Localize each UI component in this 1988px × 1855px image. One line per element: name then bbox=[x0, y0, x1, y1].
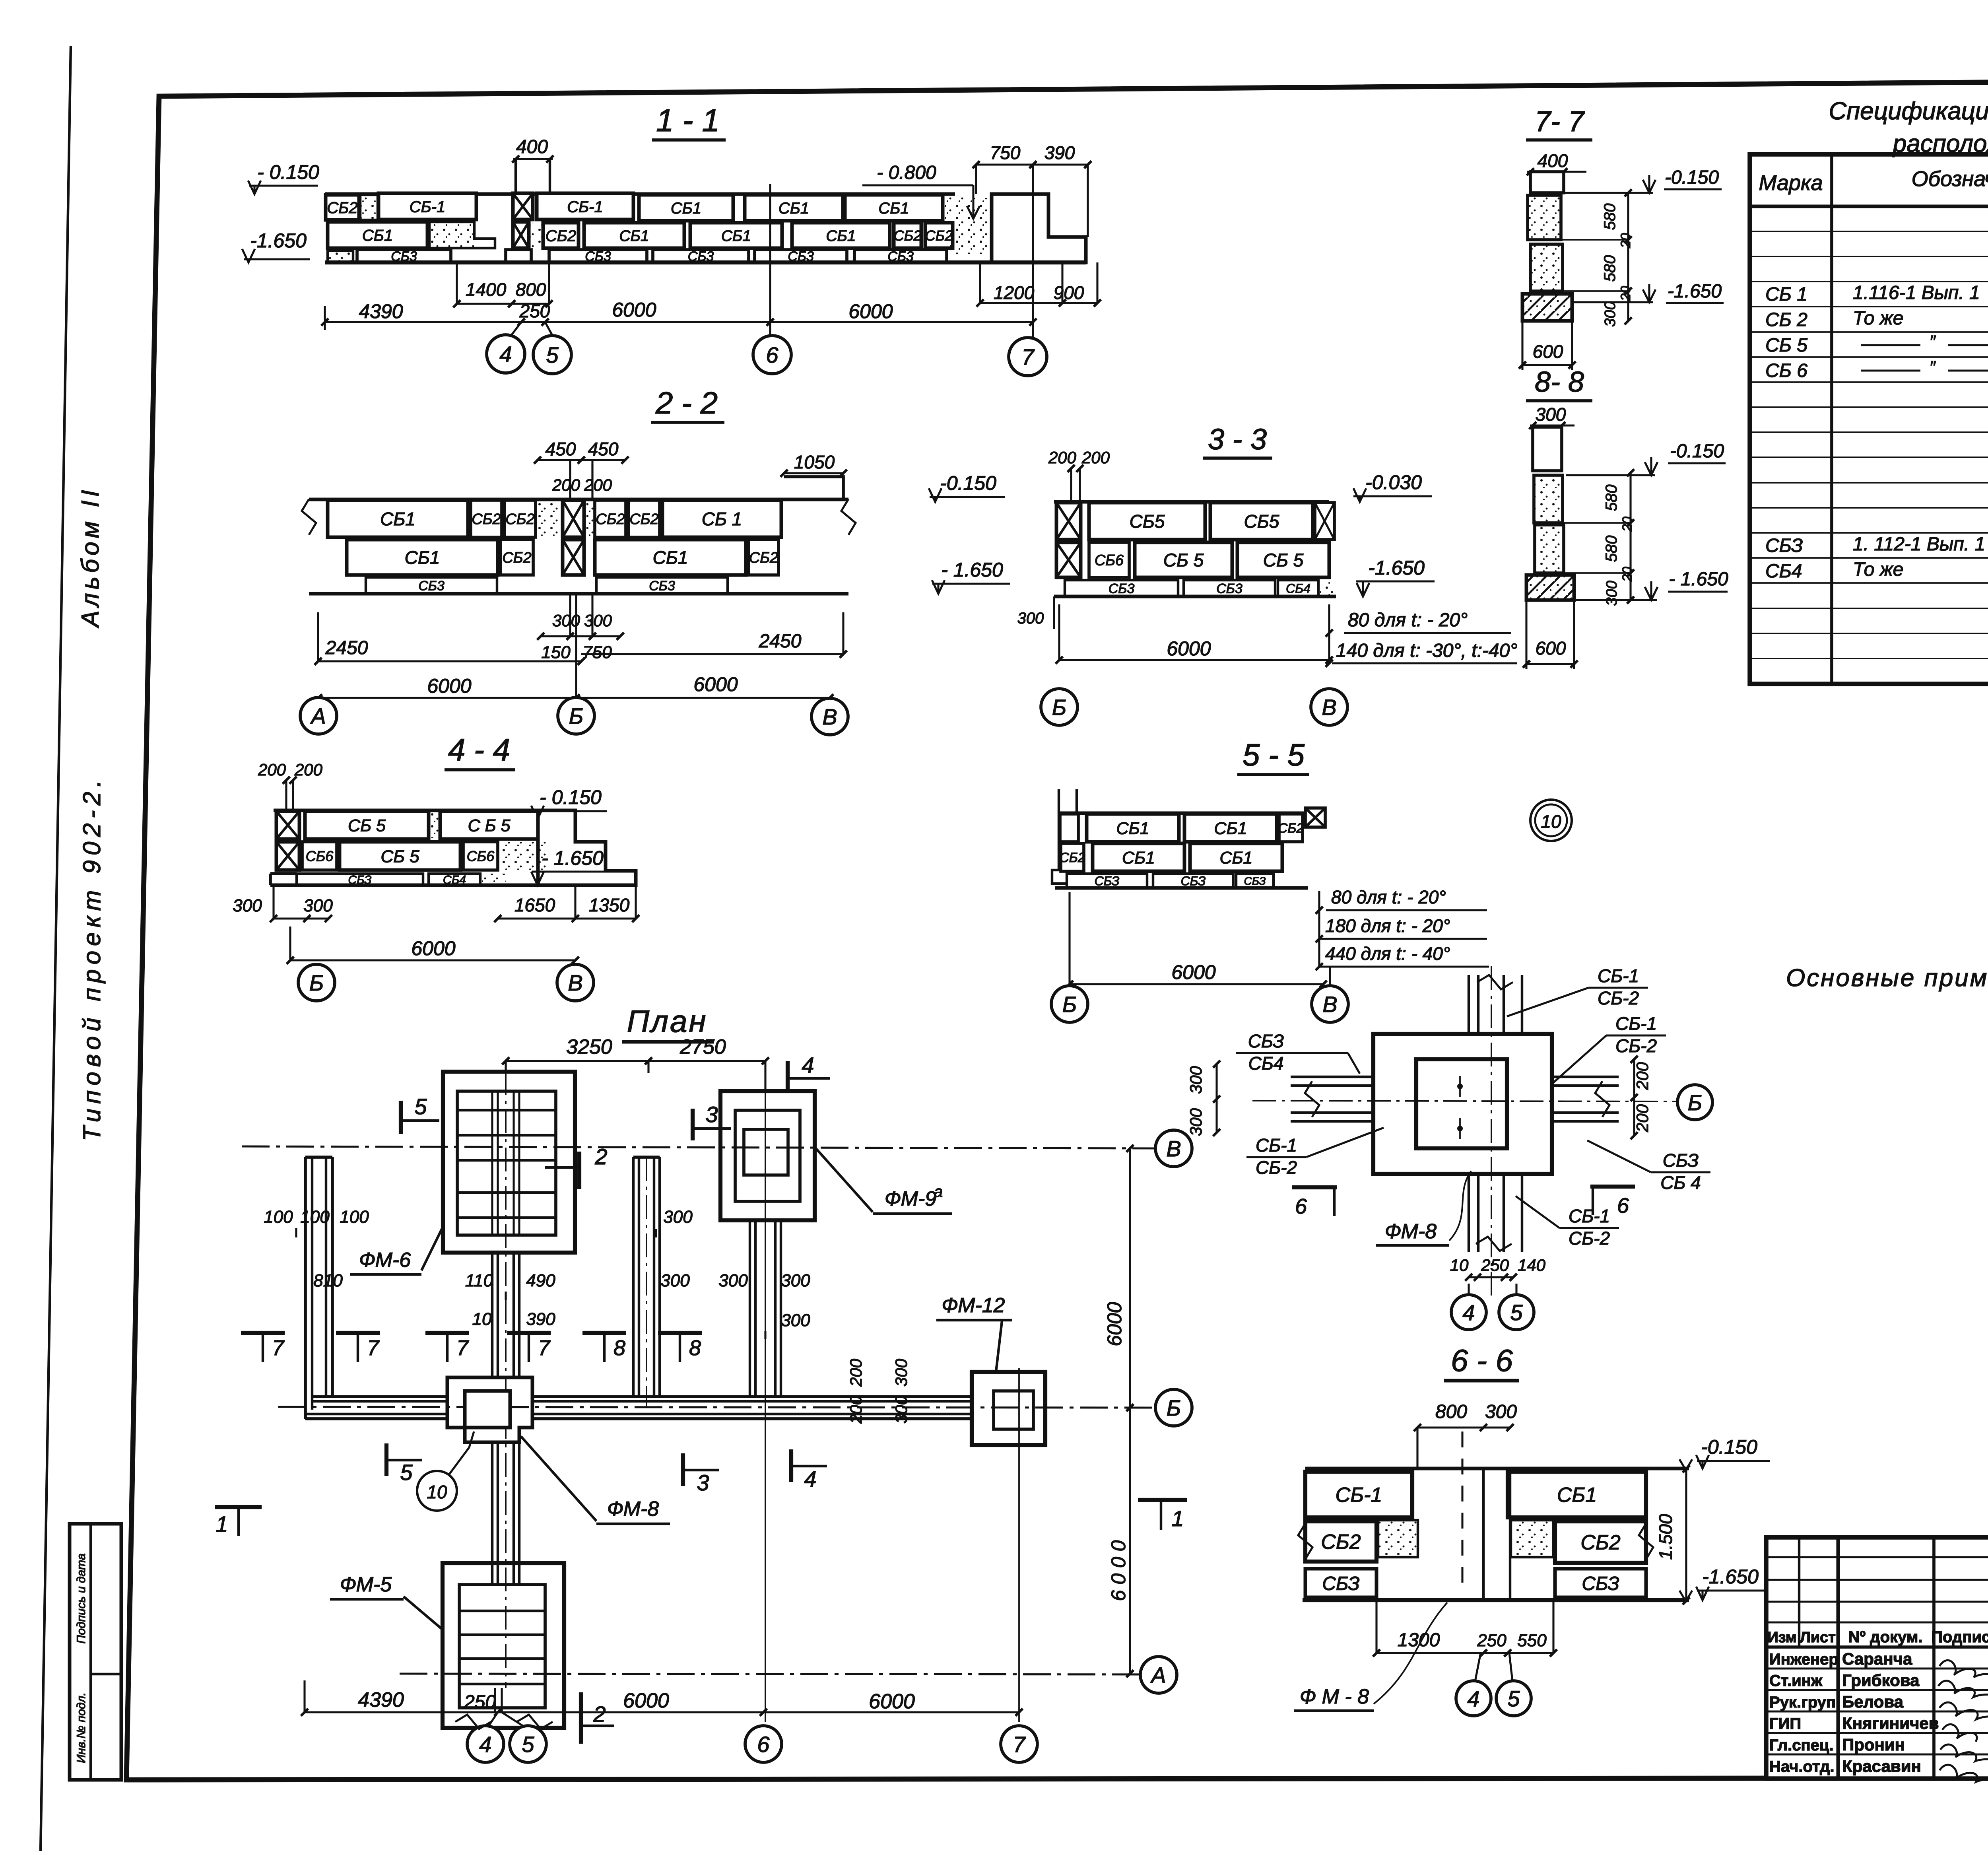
svg-text:- 0.150: - 0.150 bbox=[257, 161, 319, 183]
section 3-3 row3 plate SB4 bbox=[1278, 580, 1318, 596]
section 2-2 row1 block SB1 b bbox=[662, 500, 781, 537]
svg-text:6 - 6: 6 - 6 bbox=[1451, 1343, 1513, 1378]
svg-text:200: 200 bbox=[846, 1395, 865, 1424]
svg-text:450: 450 bbox=[588, 439, 619, 459]
svg-text:6: 6 bbox=[1295, 1195, 1307, 1218]
section 1-1 row1 block SB2 bbox=[326, 195, 359, 220]
svg-text:СБ4: СБ4 bbox=[1765, 561, 1802, 582]
svg-text:1: 1 bbox=[215, 1511, 228, 1536]
section 1-1 row3 plate SB3 a bbox=[357, 250, 451, 262]
svg-text:300: 300 bbox=[1536, 404, 1566, 425]
plan footing FM-6 outer bbox=[443, 1072, 575, 1253]
svg-text:300: 300 bbox=[1186, 1066, 1205, 1094]
svg-text:6000: 6000 bbox=[848, 300, 893, 322]
section 2-2 row3 plate SB3 b bbox=[596, 577, 728, 594]
plan wall strip under FM-9a bbox=[749, 1220, 751, 1397]
svg-text:6000: 6000 bbox=[869, 1690, 915, 1713]
svg-text:1050: 1050 bbox=[794, 452, 835, 472]
svg-text:4390: 4390 bbox=[358, 1688, 404, 1711]
section 4-4 base pad line bbox=[270, 884, 538, 887]
section 8-8 level -0.150 bbox=[1566, 474, 1655, 476]
svg-text:5: 5 bbox=[522, 1732, 534, 1757]
svg-text:1.500: 1.500 bbox=[1655, 1514, 1676, 1560]
plan left wall strip bbox=[304, 1157, 307, 1419]
section 2-2 main dimension line bbox=[318, 697, 830, 699]
section 3-3 row2 block SB5 b bbox=[1237, 542, 1329, 577]
node detail horizontal wall strip right bbox=[1552, 1076, 1619, 1078]
svg-text:СБЗ: СБЗ bbox=[1181, 874, 1206, 888]
section 2-2 column X lower bbox=[563, 540, 584, 575]
svg-text:150: 150 bbox=[541, 643, 571, 662]
svg-text:Инв.№ подл.: Инв.№ подл. bbox=[75, 1692, 88, 1763]
svg-text:СБ1: СБ1 bbox=[1214, 819, 1247, 838]
svg-text:СБЗ: СБЗ bbox=[1663, 1150, 1699, 1171]
section 1-1 wall top line bbox=[325, 192, 955, 196]
svg-text:СБ-2: СБ-2 bbox=[1569, 1228, 1610, 1249]
svg-text:СБ 5: СБ 5 bbox=[1765, 335, 1807, 356]
section 1-1 grid 6 axis line bbox=[769, 184, 771, 335]
svg-text:Марка: Марка bbox=[1759, 171, 1823, 195]
svg-text:1650: 1650 bbox=[514, 895, 555, 915]
svg-text:СБЗ: СБЗ bbox=[1322, 1573, 1359, 1594]
svg-text:80 для t: - 20°: 80 для t: - 20° bbox=[1348, 610, 1468, 631]
svg-text:Рук.груп: Рук.груп bbox=[1769, 1694, 1836, 1711]
plan node cross inner block bbox=[465, 1391, 510, 1428]
section 6-6 axis circle 5 bbox=[1496, 1681, 1531, 1716]
plan footing FM-12 inner bbox=[994, 1391, 1033, 1429]
plan section marker 4 top bbox=[786, 1061, 790, 1090]
svg-text:СБ1: СБ1 bbox=[826, 227, 856, 245]
plan footing FM-5 rungs bbox=[459, 1610, 545, 1612]
title block signatures bbox=[1939, 1660, 1988, 1677]
section 1-1 row1 block SB1 c bbox=[639, 195, 733, 221]
svg-text:Б: Б bbox=[569, 703, 583, 728]
svg-text:ФМ-5: ФМ-5 bbox=[340, 1573, 392, 1596]
svg-text:Спецификация элементов к ма: Спецификация элементов к маркировочной с… bbox=[1829, 97, 1988, 125]
plan central column axis dash line bbox=[505, 1071, 507, 1688]
plan footing FM-5 inner bbox=[459, 1585, 545, 1708]
svg-text:Типовой проект 902-2.: Типовой проект 902-2. bbox=[78, 775, 106, 1141]
section 7-7 level -0.150 bbox=[1564, 192, 1653, 194]
svg-text:2750: 2750 bbox=[679, 1035, 726, 1059]
plan right vertical dimension line bbox=[1129, 1148, 1131, 1674]
section 1-1 grid 7 axis line bbox=[1032, 167, 1034, 337]
section 6-6 block SB2 right bbox=[1555, 1521, 1646, 1563]
svg-text:20: 20 bbox=[1620, 567, 1635, 582]
svg-text:250: 250 bbox=[464, 1692, 496, 1713]
plan footing FM-9a inner bbox=[744, 1129, 788, 1175]
svg-text:Красавин: Красавин bbox=[1842, 1757, 1921, 1775]
svg-text:-1.650: -1.650 bbox=[250, 229, 307, 252]
svg-text:Nº докум.: Nº докум. bbox=[1848, 1628, 1923, 1646]
svg-text:200: 200 bbox=[1633, 1062, 1652, 1090]
plan central column strip lower bbox=[491, 1442, 493, 1585]
svg-text:450: 450 bbox=[546, 439, 576, 459]
svg-text:СБ5: СБ5 bbox=[1130, 511, 1165, 532]
plan section marker 3 bottom bbox=[681, 1453, 685, 1486]
svg-text:Саранча: Саранча bbox=[1842, 1649, 1912, 1668]
section 8-8 top block bbox=[1533, 427, 1562, 471]
svg-text:СБ5: СБ5 bbox=[1244, 511, 1279, 532]
title block outer frame bbox=[1766, 1537, 1988, 1779]
svg-text:СБ 5: СБ 5 bbox=[1163, 550, 1204, 571]
section 3-3 axis circle B bbox=[1041, 689, 1077, 725]
svg-text:-0.150: -0.150 bbox=[1701, 1436, 1757, 1458]
section 4-4 row1 dots bbox=[429, 811, 439, 838]
section 2-2 wall top line bbox=[309, 498, 848, 501]
svg-text:СБ 5: СБ 5 bbox=[1263, 550, 1304, 571]
section 5-5 wall top line bbox=[1058, 812, 1308, 815]
svg-text:10: 10 bbox=[1450, 1256, 1469, 1274]
svg-text:6000: 6000 bbox=[1171, 961, 1215, 983]
svg-text:200: 200 bbox=[1633, 1104, 1652, 1132]
section 2-2 break mark left bbox=[302, 499, 316, 535]
svg-text:300: 300 bbox=[1186, 1108, 1205, 1136]
svg-text:300: 300 bbox=[1485, 1401, 1517, 1422]
svg-text:5: 5 bbox=[1507, 1686, 1520, 1711]
section 4-4 row2 block SB6 a bbox=[302, 842, 337, 870]
svg-text:300: 300 bbox=[303, 896, 333, 915]
svg-text:600: 600 bbox=[1536, 638, 1566, 658]
node detail horizontal wall strip left bbox=[1291, 1076, 1373, 1078]
svg-text:СБ6: СБ6 bbox=[1095, 552, 1124, 569]
plan grid 6 axis dash line bbox=[765, 1093, 766, 1722]
svg-text:Ст.инж: Ст.инж bbox=[1769, 1672, 1823, 1690]
specification table frame bbox=[1750, 154, 1988, 684]
svg-text:6000: 6000 bbox=[411, 937, 455, 960]
svg-text:7: 7 bbox=[1021, 344, 1035, 369]
section 6-6 dotted concrete right bbox=[1511, 1520, 1553, 1557]
svg-text:6000: 6000 bbox=[693, 673, 738, 695]
svg-text:6: 6 bbox=[757, 1732, 770, 1757]
svg-text:СБ1: СБ1 bbox=[1557, 1484, 1597, 1507]
section 5-5 row2 block SB2 bbox=[1061, 843, 1084, 871]
plan section marker 4 bottom bbox=[789, 1449, 793, 1482]
svg-text:СБ-1: СБ-1 bbox=[1336, 1484, 1382, 1507]
section 4-4 row2 block SB5 bbox=[340, 842, 460, 870]
section 5-5 row3 plate SB3 c bbox=[1236, 874, 1274, 888]
svg-text:СБ1: СБ1 bbox=[878, 200, 909, 217]
title block name rows lines bbox=[1766, 1667, 1988, 1669]
plan section marker 2 top bbox=[577, 1152, 581, 1189]
plan footing FM-9a outer bbox=[720, 1091, 815, 1220]
section 2-2 base line bbox=[309, 592, 848, 596]
svg-text:СБ2: СБ2 bbox=[327, 199, 357, 217]
plan strip along axis B right part bbox=[532, 1395, 972, 1398]
svg-text:СБ2: СБ2 bbox=[1321, 1531, 1361, 1554]
svg-text:В: В bbox=[1322, 992, 1337, 1017]
svg-text:180 для t: - 20°: 180 для t: - 20° bbox=[1325, 915, 1450, 936]
svg-text:Подпись: Подпись bbox=[1931, 1628, 1988, 1646]
section 7-7 wall block 1 bbox=[1528, 195, 1561, 240]
section 1-1 row2 block SB1 c bbox=[690, 223, 782, 248]
svg-text:″: ″ bbox=[1929, 332, 1936, 352]
svg-text:3 - 3: 3 - 3 bbox=[1208, 423, 1267, 456]
svg-text:8- 8: 8- 8 bbox=[1535, 366, 1584, 398]
svg-text:Лист: Лист bbox=[1800, 1629, 1836, 1646]
section 1-1 row1 dots right bbox=[945, 195, 964, 220]
plan axis circle 6 bottom bbox=[745, 1726, 782, 1762]
svg-text:1200: 1200 bbox=[994, 282, 1035, 303]
svg-text:600: 600 bbox=[1533, 341, 1563, 362]
svg-text:580: 580 bbox=[1603, 485, 1620, 511]
section 3-3 row2 block SB5 a bbox=[1135, 542, 1232, 577]
svg-text:Пронин: Пронин bbox=[1842, 1735, 1905, 1754]
section 2-2 row2 block SB2 bbox=[501, 540, 533, 575]
svg-text:3: 3 bbox=[705, 1102, 718, 1127]
section 4-4 row2 dots bbox=[499, 842, 547, 870]
plan axis circle 7 bottom bbox=[1001, 1726, 1037, 1762]
svg-text:100: 100 bbox=[340, 1207, 369, 1227]
section 5-5 base line bbox=[1055, 886, 1308, 890]
svg-text:1: 1 bbox=[1171, 1506, 1184, 1531]
svg-text:- 0.800: - 0.800 bbox=[877, 162, 936, 183]
svg-text:СБ1: СБ1 bbox=[1116, 819, 1149, 838]
plan section markers 7 row bbox=[241, 1331, 285, 1335]
specification table header row line bbox=[1750, 205, 1988, 208]
svg-text:СБ 4: СБ 4 bbox=[1660, 1172, 1701, 1193]
section 2-2 row1 block SB2 b bbox=[505, 500, 536, 537]
section 2-2 row1 block SB2 d bbox=[629, 500, 660, 537]
svg-text:СБ2: СБ2 bbox=[505, 511, 534, 528]
section 1-1 main dimension line bbox=[325, 321, 1033, 323]
svg-text:4: 4 bbox=[499, 342, 512, 367]
section 1-1 row2 dotted step bbox=[429, 222, 495, 248]
section 7-7 level -1.650 bbox=[1574, 301, 1653, 303]
svg-text:5: 5 bbox=[1510, 1300, 1523, 1325]
svg-text:В: В bbox=[1166, 1136, 1181, 1161]
sheet binding edge line bbox=[41, 46, 71, 1851]
title block vertical lines left section bbox=[1798, 1537, 1800, 1647]
svg-text:2: 2 bbox=[594, 1144, 607, 1169]
plan grid 7 axis dash line bbox=[1018, 1368, 1020, 1722]
node detail section marker 6 left bbox=[1292, 1185, 1337, 1189]
section 1-1 row2 block SB1 b bbox=[584, 223, 684, 248]
svg-text:300: 300 bbox=[781, 1311, 810, 1330]
svg-text:СБ6: СБ6 bbox=[467, 848, 495, 864]
svg-text:СБЗ: СБЗ bbox=[1582, 1573, 1619, 1594]
node detail vertical wall strip upper bbox=[1468, 975, 1470, 1034]
svg-text:Б: Б bbox=[1052, 695, 1066, 720]
svg-text:СБ1: СБ1 bbox=[671, 200, 701, 217]
section 2-2 row2 block SB1 a bbox=[347, 540, 498, 575]
svg-text:20: 20 bbox=[1620, 517, 1635, 532]
svg-text:СБ3: СБ3 bbox=[1109, 581, 1135, 596]
svg-text:Нач.отд.: Нач.отд. bbox=[1769, 1758, 1834, 1775]
section 6-6 plate SB3 right bbox=[1555, 1569, 1646, 1597]
svg-text:5: 5 bbox=[546, 342, 559, 367]
section 7-7 wall block 2 bbox=[1530, 244, 1563, 291]
section 7-7 base pad bbox=[1522, 294, 1572, 321]
svg-text:4: 4 bbox=[804, 1466, 816, 1491]
svg-text:390: 390 bbox=[526, 1309, 555, 1329]
svg-text:-0.030: -0.030 bbox=[1365, 471, 1422, 493]
svg-text:С Б 5: С Б 5 bbox=[468, 816, 511, 835]
svg-text:2: 2 bbox=[593, 1702, 606, 1727]
svg-text:СБ2: СБ2 bbox=[925, 227, 953, 244]
section 1-1 row3 plate SB3 b bbox=[549, 250, 647, 262]
section 3-3 row1 block SB5 b bbox=[1210, 503, 1313, 540]
svg-text:СБ-1: СБ-1 bbox=[1569, 1206, 1610, 1226]
section 4-4 row3 plate SB3 bbox=[297, 874, 423, 885]
section 1-1 row1 block SB-1 b bbox=[537, 193, 633, 219]
svg-text:6000: 6000 bbox=[427, 675, 471, 697]
svg-text:СБ1: СБ1 bbox=[1220, 848, 1253, 867]
section 1-1 column X block upper bbox=[513, 193, 533, 219]
svg-text:Б: Б bbox=[1062, 992, 1077, 1017]
section 6-6 block SB2 left bbox=[1305, 1521, 1376, 1562]
plan bottom dimension line bbox=[305, 1711, 1019, 1713]
section 1-1 column X block lower bbox=[513, 222, 529, 248]
section 6-6 base line bbox=[1303, 1598, 1689, 1602]
section 6-6 axis circle 4 bbox=[1456, 1681, 1491, 1716]
svg-text:80 для t: - 20°: 80 для t: - 20° bbox=[1331, 887, 1446, 907]
svg-text:5: 5 bbox=[400, 1460, 413, 1485]
section 4-4 main dimension line bbox=[290, 959, 575, 961]
svg-text:800: 800 bbox=[1435, 1401, 1467, 1422]
svg-text:Гл.спец.: Гл.спец. bbox=[1769, 1737, 1834, 1754]
plan section marker 1 left bbox=[215, 1505, 262, 1509]
plan detail circle 10 leader bbox=[417, 1471, 457, 1511]
svg-text:Подпись и дата: Подпись и дата bbox=[75, 1554, 88, 1644]
section 8-8 dim chain bbox=[1629, 473, 1631, 600]
svg-text:6000: 6000 bbox=[612, 299, 656, 321]
section 1-1 row1 block SB1 d bbox=[745, 195, 843, 221]
svg-text:СБ1: СБ1 bbox=[380, 509, 415, 529]
svg-text:СБ3: СБ3 bbox=[649, 579, 675, 594]
section 2-2 right step block bbox=[784, 477, 843, 499]
section 5-5 row2 block SB1 b bbox=[1190, 843, 1282, 871]
section 8-8 base pad bbox=[1526, 575, 1574, 600]
section 6-6 block SB1 right bbox=[1508, 1472, 1646, 1517]
section 6-6 center dashed axis bbox=[1461, 1432, 1463, 1587]
title block header row line bbox=[1766, 1645, 1988, 1649]
plan section marker 5 top bbox=[399, 1101, 403, 1134]
svg-text:СБ-1: СБ-1 bbox=[567, 198, 603, 216]
section 8-8 level -1.650 bbox=[1576, 599, 1657, 601]
svg-text:СБ2: СБ2 bbox=[749, 550, 778, 566]
svg-text:Б: Б bbox=[309, 970, 324, 995]
svg-text:250: 250 bbox=[1481, 1256, 1509, 1274]
svg-text:- 1.650: - 1.650 bbox=[542, 847, 604, 869]
svg-text:Княгиничев: Княгиничев bbox=[1842, 1714, 1939, 1733]
svg-text:Изм: Изм bbox=[1767, 1629, 1796, 1646]
svg-text:200: 200 bbox=[846, 1358, 865, 1387]
plan section marker 1 right bbox=[1138, 1498, 1187, 1502]
section 5-5 row3 plate SB3 a bbox=[1067, 874, 1147, 888]
svg-text:250: 250 bbox=[1477, 1631, 1507, 1650]
svg-text:Б: Б bbox=[1688, 1090, 1702, 1115]
svg-text:-0.150: -0.150 bbox=[940, 472, 996, 494]
svg-text:СБ4: СБ4 bbox=[1286, 581, 1310, 596]
section 6-6 dotted concrete left bbox=[1378, 1520, 1418, 1557]
section 2-2 axis circle A bbox=[300, 697, 337, 734]
svg-text:СБ 5: СБ 5 bbox=[381, 847, 419, 866]
svg-text:В: В bbox=[568, 970, 582, 995]
svg-text:5: 5 bbox=[414, 1094, 427, 1119]
svg-text:СБЗ: СБЗ bbox=[1248, 1031, 1284, 1051]
section 1-1 right pier with step bbox=[992, 194, 1086, 262]
plan axis circle 4 bottom bbox=[467, 1726, 504, 1762]
svg-text:6000: 6000 bbox=[1103, 1302, 1126, 1346]
svg-text:4: 4 bbox=[479, 1732, 491, 1757]
svg-text:ГИП: ГИП bbox=[1769, 1715, 1801, 1733]
section 3-3 row3 plate SB3 b bbox=[1184, 580, 1275, 596]
svg-text:СБ-2: СБ-2 bbox=[1615, 1035, 1657, 1056]
svg-text:1350: 1350 bbox=[589, 895, 630, 915]
svg-text:СБ2: СБ2 bbox=[502, 550, 531, 566]
plan footing FM-6 rungs bbox=[457, 1109, 556, 1111]
section 5-5 axis circle B bbox=[1051, 986, 1088, 1022]
svg-text:Альбом II: Альбом II bbox=[77, 486, 104, 628]
svg-text:300: 300 bbox=[718, 1271, 748, 1290]
svg-text:10: 10 bbox=[472, 1309, 492, 1329]
plan section marker 5 bottom bbox=[384, 1443, 388, 1476]
section 7-7 top block bbox=[1530, 172, 1564, 193]
svg-text:СБЗ: СБЗ bbox=[1765, 535, 1803, 556]
node detail inner column rect bbox=[1416, 1059, 1507, 1148]
svg-text:СБ2: СБ2 bbox=[1580, 1531, 1620, 1554]
svg-text:1. 112-1 Вып. 1: 1. 112-1 Вып. 1 bbox=[1853, 534, 1985, 555]
svg-text:То же: То же bbox=[1853, 308, 1903, 329]
svg-text:СБ3: СБ3 bbox=[418, 579, 445, 594]
section 1-1 row2 block SB2 a bbox=[543, 223, 579, 248]
svg-text:4390: 4390 bbox=[359, 300, 403, 322]
svg-text:8: 8 bbox=[613, 1336, 625, 1360]
svg-text:- 1.650: - 1.650 bbox=[1669, 569, 1728, 590]
plan axis circle 5 bottom bbox=[510, 1726, 546, 1762]
svg-text:6000: 6000 bbox=[623, 1689, 669, 1712]
svg-text:СБ 1: СБ 1 bbox=[1765, 284, 1807, 305]
svg-text:В: В bbox=[1322, 695, 1336, 720]
svg-text:СБ-1: СБ-1 bbox=[1615, 1013, 1657, 1034]
section 1-1 axis circle 5 bbox=[533, 336, 571, 374]
svg-text:СБ6: СБ6 bbox=[306, 848, 334, 864]
node detail section marker 6 right bbox=[1590, 1185, 1635, 1189]
svg-text:20: 20 bbox=[1618, 233, 1633, 249]
plan footing FM-9a middle bbox=[735, 1110, 800, 1201]
svg-text:СБ1: СБ1 bbox=[1122, 848, 1155, 867]
svg-text:140 для t: -30°, t:-40°: 140 для t: -30°, t:-40° bbox=[1336, 640, 1518, 661]
svg-text:580: 580 bbox=[1603, 536, 1620, 562]
svg-text:СБ-1: СБ-1 bbox=[410, 198, 446, 216]
section 6-6 leaders to circles bbox=[1475, 1653, 1481, 1681]
svg-text:2450: 2450 bbox=[759, 631, 802, 652]
section 4-4 right pier steps bbox=[538, 810, 636, 885]
svg-text:ФМ-8: ФМ-8 bbox=[1385, 1220, 1437, 1243]
svg-text:-0.150: -0.150 bbox=[1670, 441, 1724, 462]
svg-text:1.116-1 Вып. 1: 1.116-1 Вып. 1 bbox=[1853, 282, 1980, 303]
plan wall strip 8-8 grid bbox=[632, 1157, 635, 1397]
svg-text:″: ″ bbox=[1929, 357, 1936, 377]
svg-text:20: 20 bbox=[1618, 286, 1633, 301]
section 5-5 row1 block SB1 b bbox=[1184, 814, 1277, 842]
svg-text:СБ2: СБ2 bbox=[1059, 850, 1085, 865]
svg-text:ФМ-9: ФМ-9 bbox=[885, 1187, 936, 1210]
svg-text:а: а bbox=[934, 1183, 943, 1200]
svg-text:750: 750 bbox=[990, 142, 1021, 163]
section 2-2 row1 block SB2 a bbox=[471, 500, 502, 537]
svg-text:400: 400 bbox=[1538, 150, 1568, 171]
svg-text:200: 200 bbox=[258, 760, 286, 779]
svg-text:900: 900 bbox=[1054, 282, 1084, 303]
section 2-2 row2 block SB1 b bbox=[595, 540, 746, 575]
section 4-4 row3 plate SB4 bbox=[429, 874, 480, 885]
svg-text:400: 400 bbox=[516, 136, 548, 157]
section 8-8 wall block 2 bbox=[1535, 525, 1564, 573]
node detail vertical wall strip lower bbox=[1468, 1174, 1470, 1252]
svg-text:-1.650: -1.650 bbox=[1368, 557, 1425, 579]
